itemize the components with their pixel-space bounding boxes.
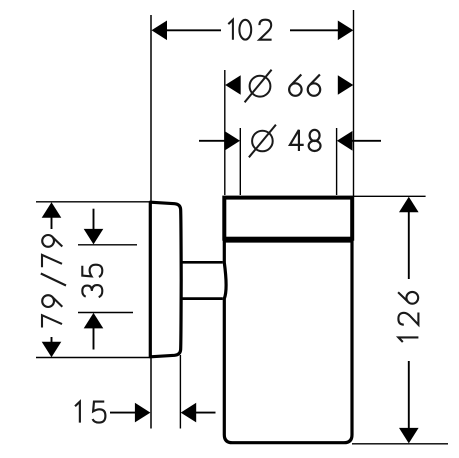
- wire: 15 right extension line (plate front): [179, 355, 181, 429]
- dimension 79/79: line: [51, 216, 53, 344]
- dimension 126: top arrow: [399, 197, 419, 213]
- cup holder ring (top band): [224, 198, 352, 239]
- wire: right extension line for 102 / O66: [353, 10, 355, 196]
- connector arm between plate and cup: [182, 261, 223, 264]
- dimension 15: left tail + arrow (pointing right): [110, 412, 137, 414]
- dimension 35: bottom tail + arrow (pointing up): [93, 326, 95, 350]
- dimension 35: bottom extension line: [78, 312, 133, 314]
- dimension 102: left arrow: [152, 21, 168, 41]
- dimension 126: line: [408, 210, 410, 430]
- dimension 79/79: top extension line: [36, 201, 150, 203]
- wall plate outline (side view): [150, 202, 181, 357]
- wire: O48 left extension line: [239, 128, 241, 195]
- dimension 35: label: [82, 265, 102, 297]
- dimension 79/79: bottom extension line: [36, 357, 150, 359]
- dimension O48: label: [290, 130, 321, 151]
- wire: O66 left extension line: [224, 70, 226, 195]
- dimension O48: right tail + arrow: [350, 140, 381, 142]
- dimension O48: diameter symbol: [249, 125, 276, 158]
- dimension O66: right arrow: [338, 75, 354, 95]
- dimension 126: bottom extension line: [352, 443, 448, 445]
- dimension O66: left arrow: [225, 75, 241, 95]
- dimension 79/79: bottom arrow: [42, 342, 62, 358]
- dimension 102: label: [228, 20, 271, 40]
- dimension 15: label: [75, 402, 105, 423]
- dimension 35: top extension line: [78, 244, 137, 246]
- dimension 126: bottom arrow: [399, 428, 419, 444]
- wire: O48 right extension line: [336, 128, 338, 195]
- dimension 126: top extension line: [354, 195, 426, 197]
- dimension 15: right tail + arrow (pointing left): [194, 412, 216, 414]
- dimension O48: left tail + arrow: [199, 140, 227, 142]
- cup body (tumbler) with left bulge where arm meets: [224, 241, 352, 443]
- dimension 79/79: label: [41, 235, 66, 328]
- dimension O66: diameter symbol: [245, 70, 272, 103]
- dimension 79/79: top arrow: [42, 202, 62, 218]
- dimension O66: label: [289, 74, 320, 95]
- wire: wall extension line (left vertical): [150, 15, 152, 429]
- dimension 35: top tail + arrow (pointing down): [93, 209, 95, 231]
- dimension 102: right arrow: [338, 21, 354, 41]
- dimension 102: line: [166, 29, 339, 31]
- dimension 126: label: [398, 292, 418, 342]
